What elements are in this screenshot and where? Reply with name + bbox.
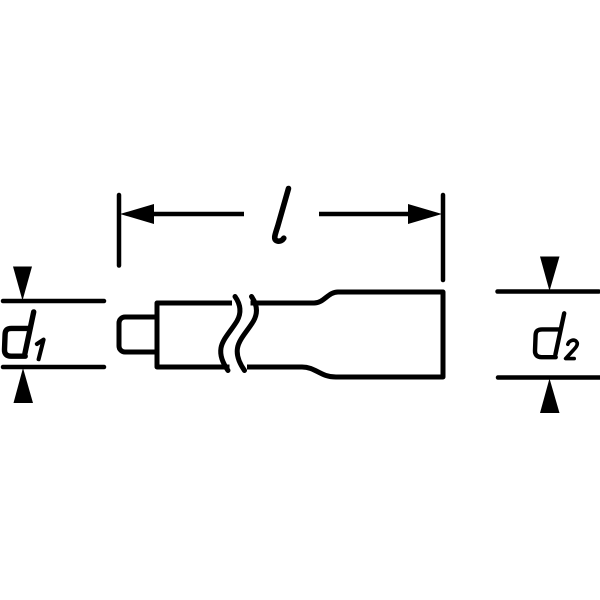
dimension l line right segment xyxy=(319,212,412,217)
dimension d2 top line xyxy=(498,289,600,294)
dimension l right extension tick xyxy=(441,195,446,280)
label d1 subscript 1 xyxy=(37,340,44,360)
dimension d2 top arrowhead xyxy=(540,257,560,292)
dimension d2 bottom arrowhead xyxy=(540,379,560,414)
dimension l right arrowhead xyxy=(408,204,442,224)
break line right S-curve xyxy=(237,297,256,371)
dimension d1 top line xyxy=(3,299,104,304)
label d2 xyxy=(535,313,564,357)
dimension l left arrowhead xyxy=(120,204,154,224)
dimension d1 bottom arrowhead xyxy=(14,368,34,403)
tool body square drive tang xyxy=(119,317,161,352)
tool body shaft left section xyxy=(157,303,232,367)
tool body shaft right section and socket head xyxy=(247,292,443,377)
label l xyxy=(275,189,289,242)
dimension l left extension tick xyxy=(117,195,122,266)
break line left S-curve xyxy=(221,297,240,371)
label d2 subscript 2 xyxy=(566,340,578,358)
dimension d1 bottom line xyxy=(3,365,104,370)
dimension d1 top arrowhead xyxy=(13,267,32,301)
dimension l line left segment xyxy=(150,212,244,217)
label d1 xyxy=(4,312,33,356)
dimension d2 bottom line xyxy=(498,375,600,380)
